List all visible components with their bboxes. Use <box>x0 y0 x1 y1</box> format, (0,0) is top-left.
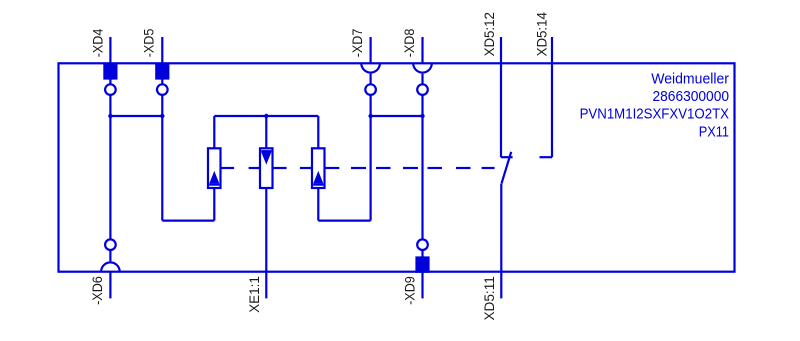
svg-text:Weidmueller: Weidmueller <box>651 71 729 87</box>
svg-text:XD5:11: XD5:11 <box>481 276 497 320</box>
svg-text:-XD7: -XD7 <box>349 28 365 57</box>
svg-text:XD5:14: XD5:14 <box>533 12 549 56</box>
svg-text:-XD5: -XD5 <box>140 28 156 57</box>
svg-text:XD5:12: XD5:12 <box>481 12 497 56</box>
svg-text:PX11: PX11 <box>699 124 729 140</box>
svg-text:XE1:1: XE1:1 <box>246 276 262 313</box>
svg-text:PVN1M1I2SXFXV1O2TX: PVN1M1I2SXFXV1O2TX <box>580 107 730 123</box>
svg-text:-XD9: -XD9 <box>401 276 417 305</box>
svg-text:-XD4: -XD4 <box>89 28 105 57</box>
svg-text:-XD8: -XD8 <box>401 28 417 57</box>
svg-text:-XD6: -XD6 <box>89 276 105 305</box>
svg-text:2866300000: 2866300000 <box>653 89 730 105</box>
